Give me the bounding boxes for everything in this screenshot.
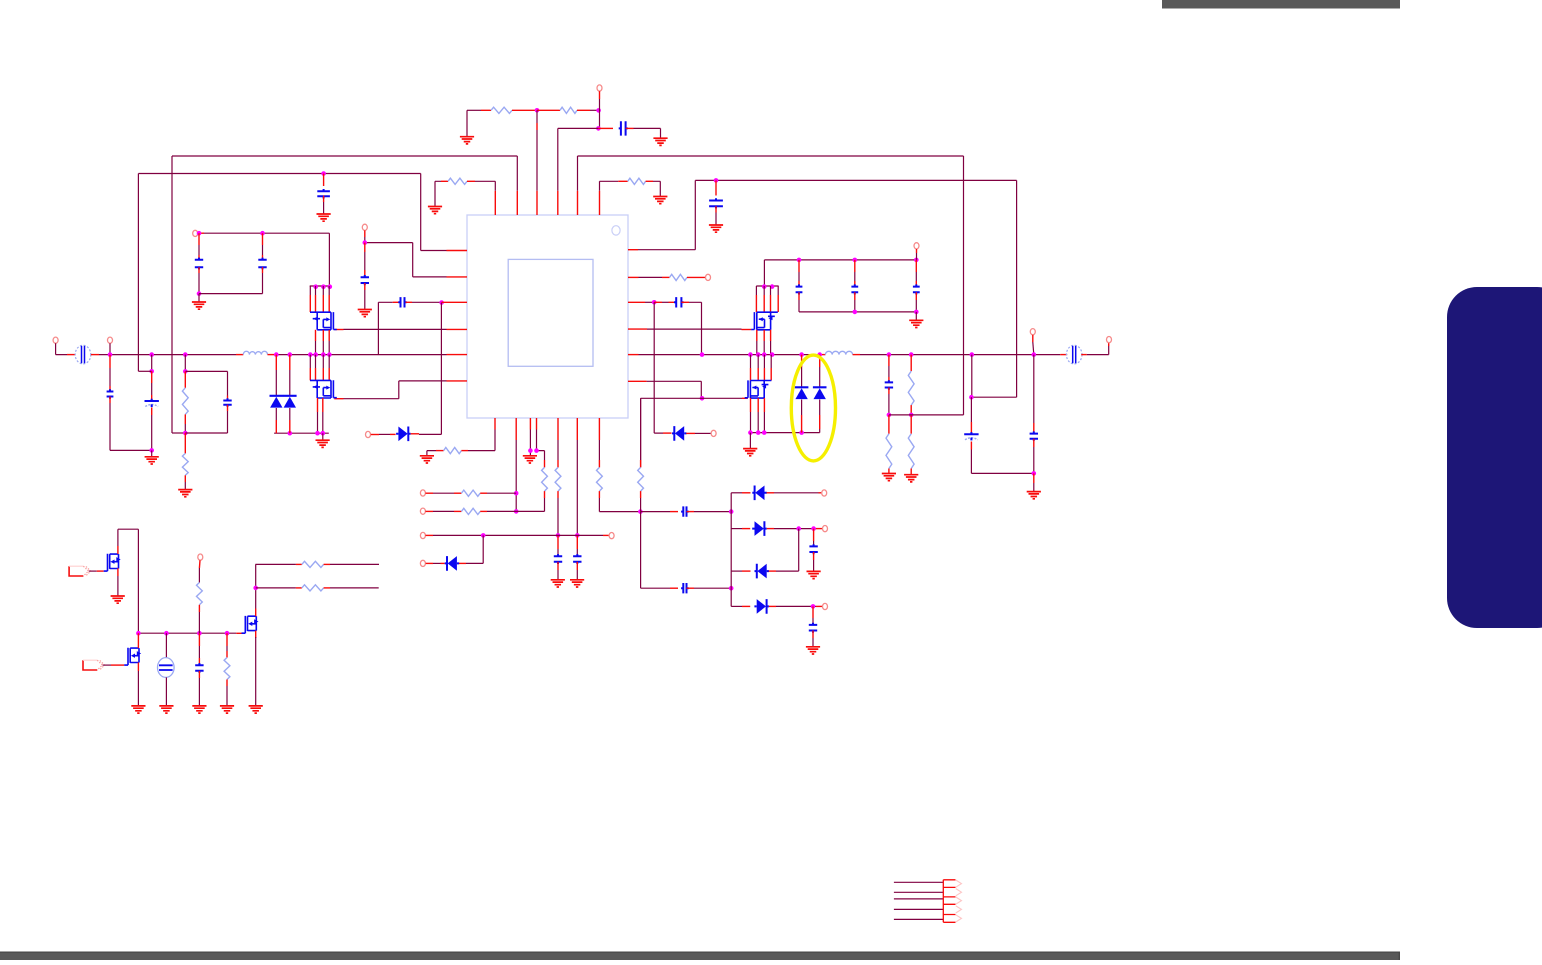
wire riser	[654, 302, 663, 433]
wire	[802, 400, 820, 433]
wire dot row	[138, 632, 236, 634]
resistor R13	[461, 490, 480, 496]
resistor R12	[542, 467, 548, 491]
resistor R6	[182, 453, 188, 475]
wire ladder spine	[730, 493, 732, 607]
wire	[774, 492, 819, 494]
junction	[1032, 471, 1037, 476]
wire	[289, 408, 291, 420]
pin lead	[770, 330, 772, 341]
pin lead	[198, 671, 200, 678]
terminal T12	[420, 490, 425, 496]
pin lead	[742, 329, 752, 331]
mosfet Q4	[310, 312, 337, 330]
pin lead	[757, 398, 759, 412]
pin lead	[598, 491, 600, 498]
wire	[971, 355, 973, 398]
junction	[514, 509, 519, 514]
junction	[762, 352, 767, 357]
IC top pin	[577, 191, 579, 215]
junction	[748, 430, 753, 435]
bus wire right2	[860, 354, 1060, 356]
IC left pin 4	[447, 328, 468, 330]
capacitor C2	[317, 189, 330, 199]
wire	[364, 290, 366, 309]
wire	[118, 529, 138, 633]
pin lead	[296, 587, 302, 589]
junction	[909, 413, 914, 418]
wire	[165, 677, 167, 705]
pin lead	[802, 415, 820, 433]
wire	[731, 492, 742, 494]
pin lead	[198, 605, 200, 612]
ground	[904, 475, 918, 482]
pin lead	[109, 397, 111, 404]
dual diode D1	[270, 396, 284, 408]
wire connector pin 1	[894, 881, 943, 883]
connector J1 body	[943, 880, 955, 923]
wire	[435, 181, 441, 206]
wire	[1033, 483, 1035, 491]
pin lead	[459, 562, 466, 564]
wire	[185, 411, 227, 433]
wire	[379, 433, 390, 435]
wire	[653, 181, 660, 196]
pin lead	[715, 206, 717, 212]
ground	[316, 440, 330, 447]
wire	[330, 587, 379, 589]
wire	[731, 570, 742, 572]
pin lead	[236, 632, 241, 634]
resistor R8	[886, 434, 892, 469]
highlight ellipse	[791, 355, 835, 461]
dual diode D2	[283, 396, 297, 408]
junction	[909, 352, 914, 357]
pin lead	[454, 510, 461, 512]
pin lead	[226, 633, 228, 646]
wire	[756, 341, 758, 355]
junction	[197, 631, 202, 636]
pin lead	[769, 605, 776, 607]
wire	[433, 562, 441, 564]
wire	[184, 424, 186, 433]
ground	[807, 571, 821, 578]
ground	[317, 214, 331, 221]
junction	[756, 352, 761, 357]
pin lead	[426, 562, 433, 564]
pin lead	[618, 180, 627, 182]
wire	[364, 252, 366, 270]
pin lead	[577, 109, 590, 111]
junction	[652, 300, 657, 305]
wire	[888, 366, 890, 377]
diode D3	[396, 427, 411, 442]
IC top pin	[599, 191, 601, 215]
pin lead	[198, 267, 200, 273]
wire	[647, 328, 742, 330]
pin lead	[328, 368, 330, 380]
junction	[729, 509, 734, 514]
junction	[853, 310, 858, 315]
wire net A	[172, 156, 517, 433]
wire	[275, 370, 277, 396]
pin lead	[770, 368, 772, 380]
pin lead	[598, 127, 613, 129]
IC bottom pin	[494, 418, 496, 430]
IC left pin 5	[447, 354, 468, 356]
junction	[321, 352, 326, 357]
junction	[260, 231, 265, 236]
pin lead	[813, 529, 815, 541]
IC right pin 4	[628, 328, 647, 330]
capacitor C9	[195, 258, 203, 270]
pin lead	[317, 398, 319, 412]
junction	[811, 526, 816, 531]
IC bottom pin	[576, 418, 578, 440]
wire	[694, 587, 731, 589]
IC U1 inner pad	[508, 259, 593, 366]
dual diode D5	[795, 387, 809, 399]
IC bottom pin	[529, 418, 531, 430]
wire	[433, 510, 454, 512]
inductor L1	[243, 351, 267, 354]
wire source bar	[750, 432, 820, 434]
pin lead	[687, 587, 695, 589]
junction	[183, 352, 188, 357]
pin lead	[750, 398, 752, 412]
wire	[344, 381, 447, 399]
pin lead	[262, 267, 264, 273]
IC right pin 2	[628, 276, 639, 278]
resistor R17	[638, 467, 644, 491]
pin lead	[669, 301, 677, 303]
wire	[590, 109, 599, 111]
wire	[110, 403, 152, 450]
wire	[763, 412, 765, 433]
terminal T16	[420, 560, 425, 566]
resistor R18	[197, 583, 203, 605]
wire	[639, 276, 663, 278]
EMI filter FL1	[75, 345, 91, 364]
terminal T5	[193, 230, 198, 236]
pin lead	[1033, 423, 1035, 434]
pin lead	[1060, 354, 1067, 356]
terminal T8	[711, 430, 716, 436]
pin lead	[426, 534, 434, 536]
pin lead	[916, 249, 918, 253]
wire	[487, 492, 516, 494]
IC right pin 6	[628, 380, 647, 382]
wire	[315, 286, 317, 295]
wire drain bar	[756, 285, 778, 287]
terminal T20	[198, 554, 203, 560]
wire	[970, 397, 972, 422]
pin lead	[756, 330, 758, 341]
wire riser	[798, 529, 800, 572]
ground	[192, 302, 206, 309]
ground	[460, 137, 474, 144]
wire	[378, 302, 392, 354]
bus wire right	[639, 354, 819, 356]
ground	[1027, 492, 1041, 499]
junction	[700, 396, 705, 401]
wire	[813, 560, 815, 571]
wire	[819, 367, 821, 387]
wire	[184, 355, 186, 372]
resistor R4	[628, 178, 646, 184]
junction	[514, 491, 519, 496]
junction	[887, 352, 892, 357]
junction	[1032, 352, 1037, 357]
ground	[131, 706, 145, 713]
wire	[198, 294, 200, 302]
wire	[165, 633, 167, 658]
junction	[796, 526, 801, 531]
wire	[151, 355, 153, 372]
ground	[178, 490, 192, 497]
pin lead	[184, 414, 186, 424]
pin lead	[910, 355, 912, 372]
junction	[321, 431, 326, 436]
wire	[537, 99, 600, 128]
pin lead	[755, 295, 757, 312]
ground	[220, 706, 234, 713]
junction	[327, 352, 332, 357]
pin lead	[801, 355, 803, 367]
pin lead	[461, 450, 468, 452]
EMI filter FL2	[1066, 345, 1082, 364]
pin lead	[406, 301, 413, 303]
capacitor C17	[1030, 431, 1038, 441]
pin lead	[742, 528, 750, 530]
pin lead	[137, 633, 139, 648]
pin lead	[598, 460, 600, 467]
junction	[535, 108, 540, 113]
IC left pin 6	[447, 380, 468, 382]
pin lead	[364, 230, 366, 237]
wire	[109, 343, 111, 354]
wire	[776, 605, 816, 607]
pin lead	[819, 492, 822, 494]
wire	[109, 368, 111, 386]
resistor R10	[908, 434, 914, 469]
pin lead	[426, 492, 434, 494]
wire	[151, 383, 153, 395]
ground	[145, 457, 159, 464]
pin lead	[323, 174, 325, 187]
pin lead	[91, 354, 99, 356]
junction	[748, 352, 753, 357]
pin lead	[1081, 354, 1087, 356]
ground	[743, 449, 757, 456]
wire y=414.9	[889, 414, 964, 416]
resistor R16	[597, 467, 603, 491]
pin lead	[117, 546, 119, 554]
wire	[323, 202, 325, 214]
wire	[322, 286, 324, 295]
wire	[647, 381, 702, 398]
pin lead	[557, 535, 559, 549]
wire source bar	[274, 432, 329, 434]
wire	[317, 412, 319, 433]
wire	[309, 286, 311, 295]
capacitor C3	[709, 198, 723, 208]
wire	[798, 272, 800, 281]
wire	[255, 637, 257, 706]
diode D8	[752, 486, 767, 501]
wire	[557, 440, 559, 460]
resistor R9	[908, 371, 914, 405]
wire	[755, 286, 757, 295]
IC left pin 1	[447, 250, 468, 252]
wire	[798, 300, 800, 312]
IC top pin	[516, 191, 518, 215]
terminal T18	[823, 526, 828, 532]
pin lead	[769, 570, 776, 572]
junction	[136, 631, 141, 636]
pin lead	[970, 422, 972, 434]
capacitor C19	[573, 554, 581, 564]
mosfet Q3	[242, 616, 259, 633]
wire net A bottom	[172, 432, 185, 434]
pin lead	[97, 570, 104, 572]
ground	[570, 580, 584, 587]
junction	[108, 352, 113, 357]
wire	[537, 430, 545, 461]
wire	[731, 605, 742, 607]
pin lead	[670, 587, 678, 589]
terminal T7	[706, 274, 711, 280]
terminal T11	[1030, 329, 1035, 335]
ground	[159, 706, 173, 713]
wire	[198, 646, 200, 658]
ground	[882, 474, 896, 481]
pin lead	[813, 552, 815, 560]
wire cap bank top	[764, 260, 916, 286]
pin lead	[767, 528, 774, 530]
wire	[916, 253, 918, 260]
port P1	[69, 566, 91, 576]
pin lead	[328, 330, 330, 341]
right navy rounded sidebar tab	[1447, 287, 1542, 628]
wire	[750, 355, 752, 368]
pin lead	[67, 354, 75, 356]
pin lead	[910, 469, 912, 475]
junction	[817, 352, 822, 357]
pin lead	[467, 180, 475, 182]
pin lead	[750, 368, 752, 380]
IC left pin 3	[442, 301, 467, 303]
junction	[225, 631, 230, 636]
wire	[763, 341, 765, 355]
wire connector pin 2	[894, 891, 943, 893]
pin lead	[393, 301, 400, 303]
pin lead	[1033, 473, 1035, 483]
wire	[749, 433, 751, 449]
wire	[777, 286, 779, 295]
wire connector pin 3	[894, 898, 943, 900]
pin lead	[454, 492, 461, 494]
wire	[801, 367, 803, 387]
resistor R1	[491, 107, 512, 113]
resistor R5	[182, 388, 188, 415]
junction	[970, 352, 975, 357]
pin lead	[441, 562, 445, 564]
wire	[971, 450, 1033, 474]
wire y371 link	[138, 370, 151, 372]
capacitor C13	[851, 284, 858, 294]
wire	[640, 498, 642, 588]
wire gate row	[641, 398, 742, 467]
capacitor C1	[619, 121, 628, 135]
wire	[731, 528, 742, 530]
pin lead	[226, 651, 228, 658]
wire	[322, 412, 324, 433]
pin lead	[681, 301, 689, 303]
junction	[770, 352, 775, 357]
dual diode D6	[813, 387, 827, 399]
pin lead	[888, 415, 890, 434]
wire	[427, 430, 495, 456]
pin lead	[512, 109, 537, 111]
junction	[887, 413, 892, 418]
wire	[774, 528, 816, 530]
resistor R7	[670, 274, 688, 280]
junction	[762, 430, 767, 435]
pin lead	[812, 606, 814, 618]
wire ground stub	[466, 110, 468, 136]
junction	[149, 448, 154, 453]
junction	[183, 431, 188, 436]
pin lead	[818, 354, 825, 356]
wire	[198, 612, 200, 633]
pin lead	[480, 492, 487, 494]
wire	[640, 511, 670, 513]
junction	[363, 240, 368, 245]
capacitor C16 polarized	[964, 432, 978, 440]
junction	[253, 586, 258, 591]
wire	[289, 370, 291, 396]
pin lead	[763, 330, 765, 341]
junction	[328, 284, 333, 289]
junction	[321, 284, 326, 289]
mosfet Q2	[124, 648, 141, 665]
wire cap bank bottom	[799, 311, 916, 313]
wire	[529, 430, 531, 456]
pin lead	[324, 587, 330, 589]
wire y371 to cap	[185, 371, 227, 395]
pin lead	[198, 233, 200, 245]
resistor R14	[461, 508, 480, 514]
wire	[433, 534, 603, 536]
junction	[811, 604, 816, 609]
pin lead	[268, 354, 276, 356]
pin lead	[888, 355, 890, 366]
pin lead	[854, 281, 856, 287]
wire	[544, 498, 546, 511]
wire	[151, 450, 153, 456]
junction	[528, 448, 533, 453]
pin lead	[334, 398, 343, 400]
ground	[806, 647, 820, 654]
wire	[557, 570, 559, 580]
connector J1 pin arrows	[956, 880, 962, 922]
wire	[634, 128, 661, 137]
pin lead	[289, 420, 291, 433]
capacitor C7 polarized	[145, 399, 159, 407]
pin lead	[557, 562, 559, 570]
pin lead	[767, 492, 775, 494]
